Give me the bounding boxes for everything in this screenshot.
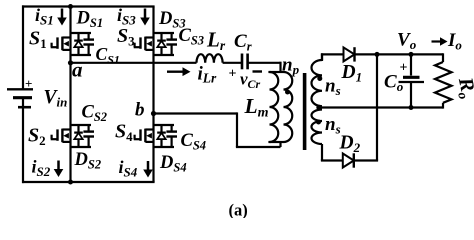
label iLr <box>198 63 218 85</box>
battery Vin <box>7 76 33 107</box>
label CS4 <box>181 131 207 153</box>
wire transformer bottom bar <box>268 141 283 143</box>
svg-text:+: + <box>229 67 237 82</box>
caption (a) <box>229 201 248 220</box>
wire left source branch (lower) <box>22 98 24 183</box>
label Lr <box>206 28 226 54</box>
label Cr <box>234 31 252 54</box>
label Co <box>384 72 404 95</box>
wire left bridge leg <box>69 7 71 183</box>
svg-text:+: + <box>400 61 408 76</box>
polarity + of vCr <box>229 67 237 82</box>
svg-text:a: a <box>72 58 83 82</box>
label Vo <box>397 30 417 53</box>
wire left source branch (upper) <box>22 5 24 89</box>
label S4 <box>115 121 133 145</box>
transformer core <box>303 73 307 150</box>
wire center tap to output bottom <box>320 106 443 108</box>
switch S4 (MOSFET, body diode DS4, capacitor CS4) <box>134 125 177 147</box>
label D1 <box>341 62 363 85</box>
switch S3 (MOSFET, body diode DS3, capacitor CS3) <box>134 33 177 55</box>
switch S1 (MOSFET, body diode DS1, capacitor CS1) <box>51 33 94 55</box>
svg-text:(a): (a) <box>229 201 248 219</box>
wire Cr to transformer top <box>248 62 281 72</box>
center tap junction <box>316 105 321 110</box>
label Ro <box>452 75 474 101</box>
label DS3 <box>158 9 186 31</box>
resistor Ro <box>435 53 452 108</box>
wire node b to transformer <box>154 112 281 147</box>
svg-text:b: b <box>135 100 145 121</box>
current arrow iLr <box>167 67 191 76</box>
polarity dot ns upper <box>317 76 322 81</box>
capacitor Cr <box>242 54 248 70</box>
current arrow iS4 <box>143 161 153 178</box>
label S2 <box>28 125 46 149</box>
label D2 <box>339 133 361 156</box>
wire D1 anode <box>321 54 344 61</box>
wire rectifier output rail <box>376 54 378 160</box>
wire right bridge leg <box>152 7 154 183</box>
label np <box>282 55 300 78</box>
label DS4 <box>159 153 187 175</box>
junction dot top rail / left leg <box>68 4 73 9</box>
current arrow iS3 <box>140 9 150 26</box>
wire bottom rail <box>22 181 155 183</box>
label DS1 <box>76 9 104 31</box>
label iS2 <box>32 157 51 180</box>
transformer primary winding np <box>284 72 293 142</box>
label iS3 <box>117 5 136 28</box>
wire top rail <box>22 5 155 7</box>
polarity dot ns lower <box>316 120 321 125</box>
switch S2 (MOSFET, body diode DS2, capacitor CS2) <box>51 125 94 147</box>
current arrow iS2 <box>54 161 64 178</box>
secondary winding ns upper <box>312 53 323 106</box>
inductor Lm (magnetizing) <box>270 72 279 142</box>
secondary winding ns lower <box>312 110 323 161</box>
junction dot rail / output top <box>375 52 380 57</box>
polarity + of Co <box>400 61 408 76</box>
diode D2 <box>343 153 354 167</box>
label ns upper <box>325 76 341 99</box>
node b <box>135 100 156 121</box>
label CS2 <box>82 103 108 125</box>
current arrow Io <box>432 37 448 45</box>
wire D2 cathode to rectifier rail <box>354 159 378 161</box>
wire node a to Lr <box>71 62 197 64</box>
wire D2 anode <box>321 159 343 160</box>
junction dot bottom rail / left leg <box>68 180 73 185</box>
svg-text:+: + <box>25 76 32 91</box>
label vCr <box>240 70 261 92</box>
label DS2 <box>74 150 102 172</box>
label Vin <box>44 87 68 110</box>
label S1 <box>29 28 47 52</box>
node a <box>68 58 83 82</box>
label iS4 <box>119 157 138 180</box>
wire transformer top bar <box>268 71 283 73</box>
polarity - of vCr <box>253 70 263 72</box>
wire D1 cathode to output top <box>355 53 444 55</box>
junction dot Co bottom <box>409 105 414 110</box>
inductor Lr <box>196 54 222 63</box>
current arrow iS1 <box>57 9 67 26</box>
label iS1 <box>35 5 54 28</box>
label S3 <box>117 25 135 49</box>
diode D1 <box>344 47 355 61</box>
polarity dot primary <box>285 90 290 95</box>
label ns lower <box>325 114 341 137</box>
label Io <box>447 30 462 53</box>
junction dot Co top <box>409 52 414 57</box>
wire Lr to Cr <box>223 62 242 64</box>
label Lm <box>244 94 269 121</box>
capacitor Co <box>399 54 425 107</box>
label CS1 <box>96 44 120 67</box>
label CS3 <box>179 26 205 48</box>
